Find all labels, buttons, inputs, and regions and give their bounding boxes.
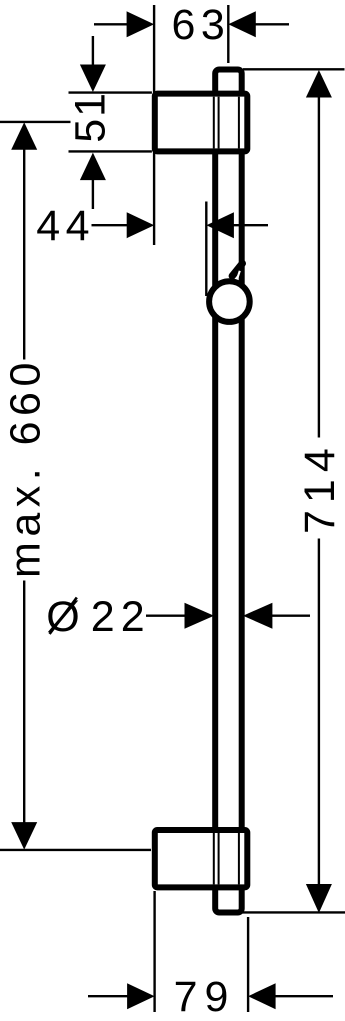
svg-text:22: 22 xyxy=(91,593,151,641)
svg-text:714: 714 xyxy=(296,441,344,534)
svg-text:63: 63 xyxy=(172,1,231,49)
svg-text:79: 79 xyxy=(174,973,236,1021)
svg-text:Ø: Ø xyxy=(46,593,85,641)
svg-text:max. 660: max. 660 xyxy=(2,357,50,578)
svg-text:51: 51 xyxy=(67,91,115,143)
svg-text:44: 44 xyxy=(36,202,95,250)
